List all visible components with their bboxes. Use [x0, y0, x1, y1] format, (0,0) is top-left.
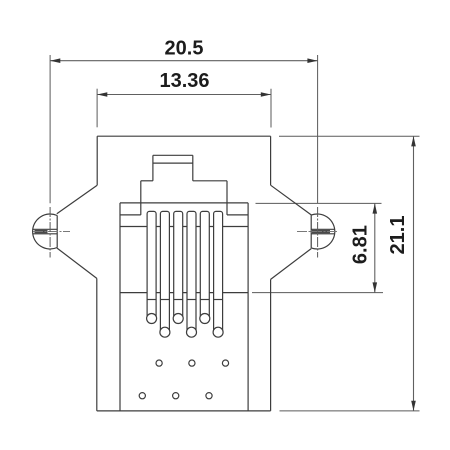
dimension 20.5 right arrowhead [307, 58, 317, 63]
right ear lower diagonal [271, 249, 312, 280]
left screw boss arc [33, 214, 58, 249]
right screw boss flat edge [310, 215, 312, 248]
dimension 21.1 extension line bottom [280, 410, 420, 412]
right screw vertical centerline [317, 207, 319, 258]
connector body upper right edge [270, 136, 272, 185]
latch tab inner line [153, 162, 193, 164]
dimension 21.1 line [413, 136, 415, 411]
dimension 6.81 extension line bottom [252, 292, 383, 294]
mounting hole row 2 right [222, 360, 228, 366]
right screw slot lower line [311, 233, 335, 235]
left screw slot lower line [33, 233, 57, 235]
connector body upper left edge [96, 136, 98, 185]
connector body lower left edge [96, 278, 98, 411]
contact pin 2 [160, 211, 170, 337]
contact pin 1 [147, 211, 157, 323]
svg-text:6.81: 6.81 [349, 225, 371, 264]
contact pin 6 [213, 211, 223, 337]
svg-text:13.36: 13.36 [159, 70, 209, 92]
mounting hole row 3 left [139, 393, 145, 399]
dimension 6.81 line [374, 203, 376, 292]
face plate left edge [119, 203, 121, 411]
dimension 6.81 extension line top [256, 202, 382, 204]
right screw slot upper line [311, 228, 335, 230]
svg-text:20.5: 20.5 [165, 38, 204, 60]
latch opening left shoulder [141, 180, 153, 182]
latch opening right outer edge [226, 181, 228, 215]
dimension 13.36 extension line left [96, 89, 98, 128]
dimension 13.36 line [97, 94, 271, 96]
left ear upper diagonal [57, 185, 97, 214]
right screw horizontal centerline [297, 231, 339, 233]
contact pin 3 [173, 211, 183, 323]
right screw boss arc [311, 214, 335, 249]
dimension 13.36 left arrowhead [97, 92, 107, 97]
dimension 21.1 extension line top [279, 135, 420, 137]
left screw vertical centerline [49, 207, 51, 258]
contact pin 5 [200, 211, 210, 323]
latch tab left edge [152, 155, 154, 181]
face step line left [120, 214, 141, 216]
left screw slot upper line [33, 228, 57, 230]
face step line right [227, 214, 248, 216]
dimension 20.5 left arrowhead [50, 58, 60, 63]
right screw slot dark fill [312, 230, 330, 233]
connector body lower right edge [270, 279, 272, 411]
contact pin 4 [187, 211, 197, 337]
dimension 13.36 right arrowhead [261, 92, 271, 97]
face horizontal line upper [120, 226, 248, 228]
latch tab right edge [192, 155, 194, 181]
connector body bottom edge [97, 410, 271, 412]
mounting hole row 2 middle [189, 360, 195, 366]
mounting hole row 3 middle [173, 393, 179, 399]
left screw slot dark fill [35, 230, 48, 233]
dimension 6.81 top arrowhead [373, 203, 378, 213]
mounting hole row 2 left [156, 360, 162, 366]
latch tab top edge [153, 154, 193, 156]
left screw boss flat edge [56, 216, 58, 248]
latch opening left outer edge [140, 181, 142, 215]
dimension 21.1 bottom arrowhead [411, 401, 416, 411]
connector body top edge [97, 135, 270, 137]
dimension 20.5 extension line right (screw centerline) [317, 55, 319, 204]
face horizontal line lower [120, 292, 248, 294]
dimension 13.36 extension line right [270, 89, 272, 128]
face plate top edge [120, 202, 248, 204]
mounting hole row 3 right [206, 393, 212, 399]
latch opening right shoulder [193, 180, 227, 182]
dimension 20.5 extension line left (screw centerline) [49, 55, 51, 203]
face plate right edge [247, 203, 249, 411]
left screw horizontal centerline [33, 231, 70, 233]
dimension 21.1 top arrowhead [411, 136, 416, 146]
right ear upper diagonal [271, 185, 312, 215]
dimension 6.81 bottom arrowhead [373, 282, 378, 292]
svg-text:21.1: 21.1 [387, 216, 409, 255]
left ear lower diagonal [57, 248, 97, 278]
dimension 20.5 line [50, 60, 318, 62]
